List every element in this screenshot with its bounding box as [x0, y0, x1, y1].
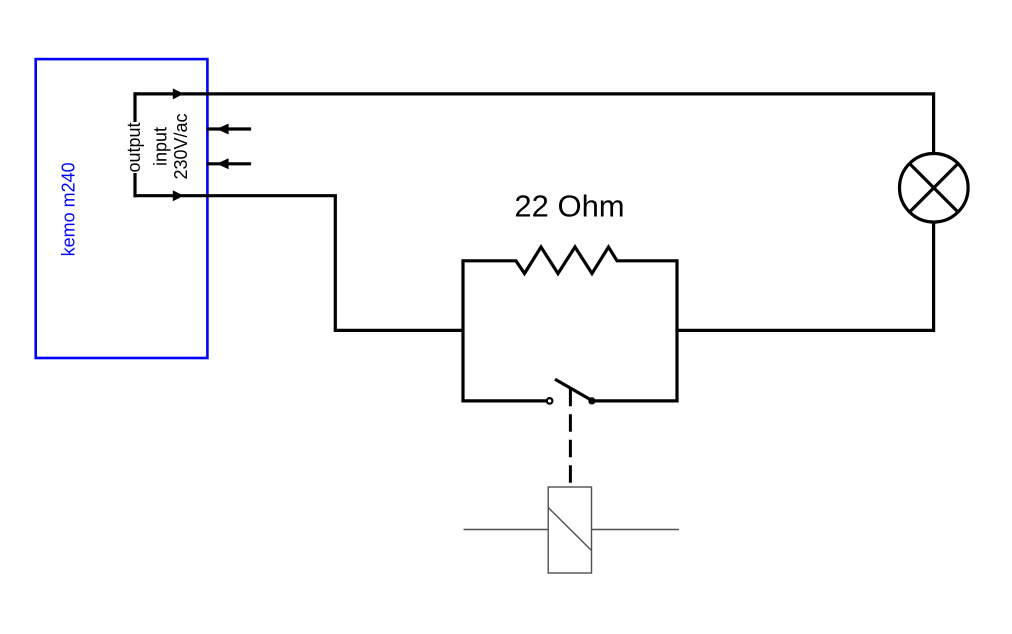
dashed actuator link — [569, 389, 572, 487]
wire parallel right branch vertical — [675, 259, 678, 402]
input wire 2 — [207, 162, 251, 165]
switch S1 pivot contact — [588, 397, 595, 404]
arrow on output bottom wire — [173, 190, 184, 201]
svg-text:230V/ac: 230V/ac — [171, 113, 191, 179]
svg-text:input: input — [150, 127, 170, 166]
wire parallel left branch vertical — [461, 259, 464, 402]
relay coil K1 body — [548, 487, 591, 573]
wire lamp bottom to right node — [677, 222, 934, 330]
relay coil K1 left lead — [464, 529, 549, 531]
svg-text:output: output — [124, 122, 144, 172]
input wire 1 — [207, 127, 251, 130]
relay coil K1 right lead — [592, 529, 679, 531]
wire top rail from output to lamp — [135, 94, 934, 154]
arrow on top rail — [173, 88, 184, 99]
resistor R1 22 Ohm — [463, 247, 677, 274]
lamp L1 — [900, 154, 969, 223]
switch S1 right lead — [592, 399, 677, 402]
wire output bracket lower stub — [133, 173, 136, 197]
wire output bottom to left node — [135, 196, 463, 331]
arrow on input wire 1 — [217, 124, 229, 135]
label input 230V/ac — [150, 113, 191, 179]
device box kemo m240 — [36, 59, 208, 358]
switch S1 left lead — [463, 399, 547, 402]
switch S1 open contact — [547, 398, 553, 404]
svg-text:kemo m240: kemo m240 — [59, 162, 79, 256]
arrow on input wire 2 — [217, 158, 229, 169]
svg-text:22 Ohm: 22 Ohm — [514, 188, 624, 223]
wire output bracket upper stub — [133, 92, 136, 122]
switch S1 blade — [555, 379, 592, 400]
relay coil K1 diagonal — [548, 508, 591, 551]
